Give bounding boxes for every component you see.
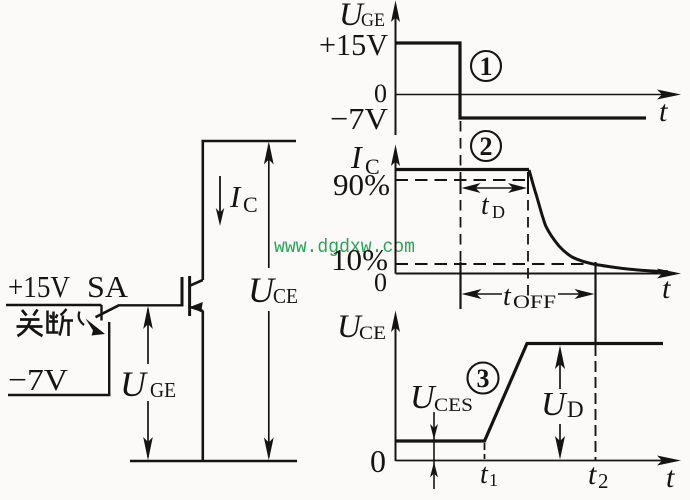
svg-text:1: 1	[480, 52, 493, 81]
svg-text:t: t	[662, 272, 671, 305]
wire: emitter lead down	[202, 311, 205, 462]
transistor Q1 IGBT emitter diagonal	[190, 307, 203, 311]
waveform U_GE: +15V level, drop, -7V level	[396, 43, 647, 118]
node marker circled 2	[471, 131, 501, 161]
svg-text:CES: CES	[434, 395, 473, 416]
label 关断 (turn-off) hand-drawn glyphs	[17, 309, 74, 336]
svg-text:0: 0	[374, 268, 387, 297]
node marker circled 3	[468, 363, 499, 394]
wire: +15V feed	[6, 304, 102, 306]
wire: -7V branch	[8, 322, 109, 395]
dimension arrow t_OFF	[465, 293, 502, 295]
svg-text:+15V: +15V	[319, 27, 389, 62]
svg-text:t: t	[588, 458, 597, 491]
solid marker line at t2 (10% crossing)	[594, 262, 596, 345]
svg-text:D: D	[567, 397, 584, 422]
svg-text:U: U	[248, 270, 276, 310]
turn-off action arrow	[79, 312, 84, 326]
svg-text:U: U	[541, 386, 568, 423]
transistor Q1 IGBT gate bar	[181, 277, 184, 307]
关 glyph	[17, 310, 43, 337]
svg-text:t: t	[481, 190, 490, 221]
axis: panel3 time axis	[396, 460, 663, 462]
svg-text:OFF: OFF	[513, 292, 556, 313]
svg-text:2: 2	[598, 469, 609, 493]
axis: panel2 time axis	[396, 273, 663, 275]
svg-text:3: 3	[477, 364, 490, 393]
svg-text:U: U	[410, 379, 437, 416]
axis: panel1 vertical	[395, 10, 397, 135]
svg-text:t: t	[503, 281, 512, 312]
dimension arrow U_CE	[268, 145, 270, 268]
transistor Q1 IGBT body bar	[188, 276, 191, 316]
svg-text:90%: 90%	[333, 167, 390, 202]
svg-text:D: D	[492, 202, 505, 222]
node marker circled 1	[471, 51, 501, 81]
svg-text:1: 1	[489, 470, 498, 490]
svg-text:I: I	[229, 179, 242, 214]
axis: panel2 vertical	[395, 155, 397, 274]
dimension arrows U_CES	[433, 412, 435, 489]
svg-text:U: U	[120, 364, 148, 404]
current arrow I_C	[219, 176, 221, 213]
wire: bottom rail	[130, 460, 297, 463]
dashed 10% level	[396, 263, 597, 265]
transistor Q1 IGBT collector lead diagonal	[190, 280, 203, 286]
waveform I_C decay curve	[529, 170, 668, 272]
svg-text:CE: CE	[273, 284, 298, 308]
svg-text:−7V: −7V	[330, 101, 389, 136]
wire: gate lead	[118, 304, 182, 306]
svg-text:GE: GE	[150, 378, 176, 402]
svg-text:C: C	[243, 192, 258, 217]
axis: panel1 time axis	[396, 94, 663, 96]
switch SA lever	[96, 305, 119, 317]
transistor Q1 IGBT emitter arrowhead	[190, 302, 203, 312]
waveform U_CE: low level, ramp, high level	[396, 344, 664, 442]
switch SA contact stub	[100, 305, 102, 321]
svg-text:+15V: +15V	[8, 269, 71, 304]
dashed marker at t1	[484, 443, 486, 459]
dimension arrow U_D	[559, 350, 561, 389]
svg-text:0: 0	[370, 443, 386, 479]
svg-text:CE: CE	[359, 323, 386, 344]
dimension arrow U_GE	[147, 309, 149, 364]
svg-text:−7V: −7V	[8, 362, 69, 397]
wire: collector top rail	[203, 141, 296, 280]
dashed 90% level	[396, 179, 530, 181]
waveform I_C flat top	[396, 168, 530, 171]
svg-text:t: t	[659, 95, 668, 128]
svg-text:t: t	[480, 459, 489, 490]
svg-text:t: t	[666, 461, 675, 494]
svg-text:2: 2	[480, 132, 493, 161]
dashed vertical at current-fall instant	[527, 172, 529, 194]
dimension arrow t_D	[466, 187, 522, 189]
axis: panel3 vertical	[395, 320, 397, 461]
svg-text:SA: SA	[87, 269, 129, 304]
断 glyph	[48, 309, 74, 336]
dashed vertical at turn-off instant	[460, 121, 462, 176]
dashed marker at t2	[595, 345, 597, 460]
